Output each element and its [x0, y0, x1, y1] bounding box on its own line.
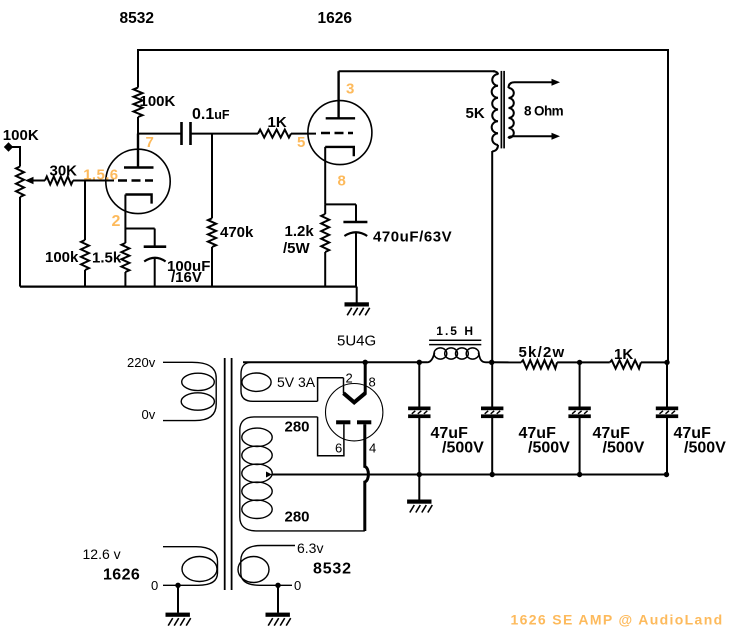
resistor 30K grid stopper	[45, 177, 73, 185]
capacitor C3 47uF/500V	[568, 407, 590, 419]
svg-text:1K: 1K	[614, 346, 633, 363]
svg-text:5K: 5K	[466, 105, 485, 122]
svg-text:1.2k: 1.2k	[285, 223, 315, 240]
ground 6.3v	[266, 613, 291, 626]
svg-text:2: 2	[346, 371, 353, 386]
svg-text:280: 280	[285, 419, 310, 436]
svg-text:0: 0	[151, 578, 158, 593]
svg-text:1626: 1626	[103, 567, 140, 584]
V1 cathode lead pin 2	[124, 195, 126, 229]
resistor 1K supply	[610, 360, 641, 368]
junction node A	[417, 360, 422, 365]
junction pin8/B+	[363, 360, 368, 365]
wire 1.5k to ground rail	[124, 272, 126, 287]
V2 plate bar	[326, 117, 355, 119]
rectifier plate pin 4	[357, 420, 371, 424]
resistor 1.5k cathode	[121, 243, 129, 272]
svg-text:280: 280	[285, 509, 310, 526]
junction bottom rail	[490, 472, 495, 477]
PT HV winding outer with leads	[240, 417, 365, 531]
svg-text:5V 3A: 5V 3A	[277, 374, 316, 390]
potentiometer 100K body	[16, 167, 24, 198]
wire 30K to V1 grid	[73, 180, 114, 182]
svg-text:12.6 v: 12.6 v	[83, 546, 121, 562]
wire 470k to ground rail	[211, 247, 213, 287]
capacitor C4 47uF/500V	[656, 407, 678, 419]
wire cathode to 470uF cap	[325, 203, 356, 205]
svg-text:470k: 470k	[220, 224, 254, 241]
junction bottom rail	[664, 472, 669, 477]
capacitor 100uF plus plate	[144, 245, 167, 248]
choke core line 2	[429, 344, 481, 346]
svg-text:100K: 100K	[140, 93, 176, 110]
svg-text:/500V: /500V	[603, 439, 645, 456]
svg-text:6.3v: 6.3v	[297, 540, 323, 556]
junction node C	[577, 360, 582, 365]
V1 plate lead pin 7	[137, 134, 139, 168]
wire pin 6 to HV winding top	[318, 417, 344, 456]
resistor 470k grid leak	[208, 218, 216, 247]
ground rail	[20, 286, 357, 288]
choke lead left	[427, 353, 435, 363]
input terminal diamond	[4, 142, 13, 151]
junction 12.6v 0 tap	[175, 583, 180, 588]
wire cap to 1K	[191, 133, 259, 135]
wire cap C4 to bottom rail	[666, 418, 668, 475]
HV center tap mark	[266, 472, 272, 478]
svg-text:0v: 0v	[142, 407, 156, 422]
wire 100k to ground rail	[84, 270, 86, 287]
PT 5V winding outer and bottom lead	[241, 362, 318, 401]
wire rail to 100K plate resistor	[137, 49, 139, 88]
OT primary lead bottom	[492, 145, 498, 152]
junction 6.3v 0 tap	[275, 583, 280, 588]
V1 plate bar	[124, 166, 154, 168]
svg-text:8: 8	[369, 375, 376, 390]
rectifier filament	[344, 393, 366, 402]
svg-text:/500V: /500V	[684, 439, 726, 456]
wire cathode to bypass cap	[125, 228, 154, 230]
wire 6.3v tap to ground	[277, 585, 279, 613]
rectifier plate pin 6	[336, 420, 350, 424]
rectifier pin 2 lead	[343, 378, 345, 394]
svg-text:1.5k: 1.5k	[92, 250, 122, 267]
wire B+ top rail	[137, 49, 668, 51]
V2 plate lead pin 3	[337, 71, 339, 118]
wire cathode to 1.5k	[124, 229, 126, 244]
resistor 1.2k/5W cathode	[321, 214, 329, 252]
PT core line 2	[231, 358, 233, 590]
V1 grid dashed	[118, 179, 153, 181]
wire cap to ground rail	[355, 233, 357, 287]
choke 1.5H winding	[434, 348, 447, 359]
rectifier 5U4G envelope	[326, 384, 383, 441]
wire cap C3 to bottom rail	[579, 418, 581, 475]
svg-text:2: 2	[112, 213, 121, 230]
wire to cap C3	[579, 362, 581, 406]
svg-text:100k: 100k	[45, 249, 79, 266]
resistor 100k grid leak	[81, 240, 89, 270]
svg-text:1.5 H: 1.5 H	[436, 324, 475, 338]
wire pin 2 to 5V winding	[318, 378, 344, 402]
wire grid node down to 100k	[84, 181, 86, 241]
wire B+ right vertical	[667, 49, 669, 364]
wire cap C2 to bottom rail	[491, 418, 493, 475]
secondary top arrow	[552, 79, 561, 86]
capacitor 470uF minus plate	[344, 232, 367, 236]
svg-text:/5W: /5W	[283, 240, 311, 257]
capacitor C2 47uF/500V	[481, 407, 503, 419]
svg-text:470uF/63V: 470uF/63V	[373, 229, 452, 246]
svg-text:/500V: /500V	[528, 439, 570, 456]
capacitor 0.1uF right plate	[189, 122, 192, 145]
capacitor 470uF plus plate	[343, 221, 367, 224]
svg-text:1.5.6: 1.5.6	[83, 166, 118, 183]
output transformer secondary winding	[509, 88, 514, 138]
V1 cathode	[125, 195, 151, 204]
svg-text:0: 0	[294, 578, 301, 593]
output transformer primary 5K winding	[492, 74, 498, 145]
wire OT primary to B+ node B	[491, 151, 493, 363]
svg-text:6: 6	[335, 441, 342, 456]
secondary bottom arrow	[552, 133, 561, 140]
svg-text:1K: 1K	[268, 114, 287, 131]
wire rail to PSU ground	[418, 475, 420, 500]
svg-text:7: 7	[146, 134, 154, 151]
OT secondary top lead	[509, 82, 554, 88]
wire 12.6v tap to ground	[177, 585, 179, 613]
PT primary loop 2	[181, 393, 214, 410]
PT HV loops	[242, 428, 272, 446]
resistor 5k/2w	[521, 360, 557, 368]
PT 6.3v winding outer	[241, 546, 295, 586]
pot wiper arrow	[25, 177, 34, 184]
wire input to volume pot	[9, 147, 21, 167]
svg-text:5k/2w: 5k/2w	[519, 344, 566, 361]
OT core line 2	[503, 71, 505, 148]
wire pot bottom to ground rail	[19, 197, 21, 287]
wire cap C1 to bottom rail	[418, 418, 420, 475]
PT 6.3v loop	[238, 557, 269, 583]
wire wiper to 30K	[32, 180, 45, 182]
PT 12.6v winding outer	[163, 547, 218, 586]
capacitor C1 47uF/500V	[408, 407, 430, 419]
OT primary lead top	[493, 71, 498, 74]
wire to 470uF plus plate	[355, 204, 357, 221]
capacitor 0.1uF left plate	[180, 122, 183, 145]
svg-text:/16V: /16V	[171, 269, 202, 286]
PT 5V top lead	[243, 361, 270, 363]
OT core line 1	[500, 71, 502, 148]
wire V2 plate to output transformer	[339, 70, 495, 72]
svg-text:/500V: /500V	[442, 439, 484, 456]
wire 1.2k to ground rail	[324, 252, 326, 287]
PT core line 1	[224, 358, 226, 590]
wire cap to ground rail	[154, 258, 156, 286]
junction node D	[664, 360, 669, 365]
svg-text:8532: 8532	[313, 561, 352, 578]
OT secondary bottom lead	[509, 136, 554, 138]
wire down to 470k	[211, 134, 213, 219]
svg-text:8532: 8532	[120, 10, 154, 27]
wire 5k/2w to 1K	[557, 361, 610, 363]
choke core line 1	[429, 339, 481, 341]
choke lead right	[479, 353, 492, 363]
PT primary loop 1	[182, 373, 215, 390]
ground input stage	[345, 302, 370, 315]
rectifier pin 8 lead	[364, 362, 367, 394]
svg-text:1626: 1626	[318, 10, 353, 27]
wire to cap 100uF plus plate	[154, 229, 156, 247]
junction bottom rail	[577, 472, 582, 477]
svg-text:30K: 30K	[50, 163, 78, 180]
svg-text:4: 4	[369, 441, 376, 456]
PT primary 220v outer	[163, 362, 216, 420]
wire cathode to 1.2k	[324, 204, 326, 214]
junction node B	[489, 360, 494, 365]
tube V1 8532 envelope	[106, 149, 170, 213]
wire 1K to node D	[641, 361, 668, 363]
wire to cap C2	[491, 362, 493, 406]
wire pin 4 with hop to HV bottom	[365, 424, 369, 531]
PT 5V loop	[242, 373, 271, 391]
resistor 100K plate load	[134, 88, 143, 117]
tube V2 1626 envelope	[308, 101, 372, 165]
V2 cathode	[325, 147, 354, 156]
wire to cap C4	[666, 362, 668, 406]
PT 12.6v loop	[182, 557, 217, 582]
svg-text:8: 8	[338, 173, 346, 190]
wire rail to ground symbol	[356, 287, 358, 303]
wire to cap C1	[418, 362, 420, 406]
V2 cathode lead pin 8	[324, 147, 326, 205]
V2 grid dashed	[321, 132, 353, 134]
junction bottom rail	[417, 472, 422, 477]
wire HV center tap / filter return rail	[272, 474, 667, 476]
svg-text:8 Ohm: 8 Ohm	[524, 104, 564, 119]
ground PSU	[407, 500, 432, 513]
svg-text:1626 SE AMP @ AudioLand: 1626 SE AMP @ AudioLand	[511, 612, 724, 628]
wire plate node to coupling cap	[138, 133, 181, 135]
wire 100K to plate node	[137, 117, 139, 135]
ground 12.6v	[166, 613, 191, 626]
svg-text:5: 5	[297, 134, 305, 151]
svg-text:3: 3	[346, 81, 354, 98]
resistor 1K grid stopper	[258, 130, 291, 138]
svg-text:5U4G: 5U4G	[337, 333, 376, 350]
svg-text:100K: 100K	[3, 127, 39, 144]
svg-text:0.1uF: 0.1uF	[192, 106, 230, 123]
capacitor 100uF minus plate	[144, 258, 165, 262]
wire rectifier B+ to choke	[243, 361, 427, 363]
wire node B to 5k/2w	[492, 361, 522, 363]
svg-text:220v: 220v	[127, 355, 156, 370]
wire 1K to V2 grid	[291, 133, 316, 135]
